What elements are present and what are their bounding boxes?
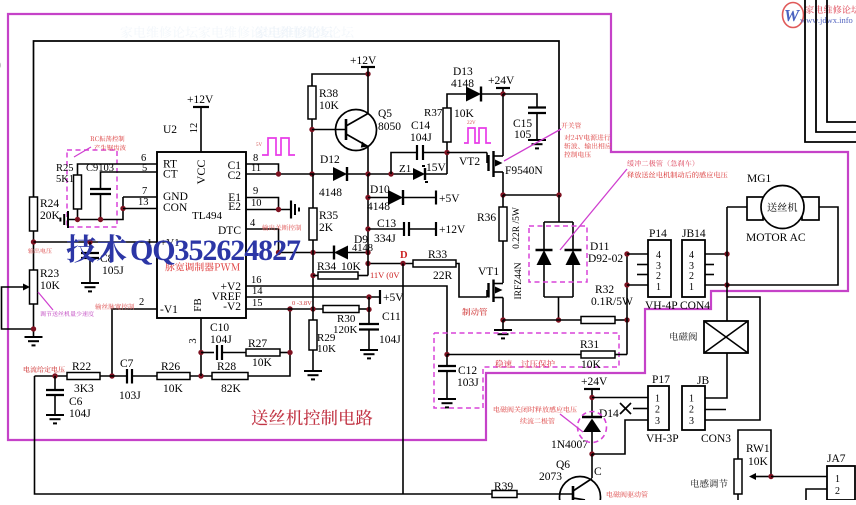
svg-text:+12V: +12V	[187, 94, 214, 106]
svg-text:JB14: JB14	[682, 228, 706, 240]
ground C15	[528, 140, 546, 148]
wire trio to right edge	[805, 0, 856, 142]
watermark QQ text	[67, 234, 301, 267]
wire JB14 pins	[705, 251, 730, 287]
annotation buffer diode	[560, 160, 728, 250]
svg-text:10K: 10K	[163, 383, 184, 395]
svg-text:D92-02: D92-02	[588, 253, 623, 265]
svg-text:4: 4	[656, 250, 661, 261]
wire pin16	[246, 275, 447, 355]
svg-text:R31: R31	[580, 339, 599, 351]
svg-text:E2: E2	[228, 201, 241, 213]
waveform pulse pin11	[256, 138, 295, 155]
svg-text:R39: R39	[494, 481, 513, 493]
svg-text:2: 2	[656, 271, 661, 282]
resistor R26	[157, 361, 212, 395]
svg-text:334J: 334J	[374, 233, 396, 245]
svg-text:R23: R23	[40, 268, 59, 280]
svg-text:CT: CT	[163, 169, 178, 181]
annotation current set voltage	[24, 366, 65, 373]
power +12V TL494 pin12	[187, 94, 214, 152]
resistor R38	[308, 86, 340, 177]
label U2	[163, 124, 177, 136]
svg-text:-V2: -V2	[223, 301, 241, 313]
resistor R31	[447, 339, 627, 371]
power +24V aux	[581, 376, 608, 417]
svg-text:1: 1	[689, 394, 694, 405]
svg-text:2: 2	[139, 297, 144, 308]
diode D14	[551, 408, 619, 457]
svg-text:C2: C2	[228, 170, 242, 182]
wire to solenoid	[705, 285, 760, 420]
power +12V Q5	[350, 55, 377, 74]
svg-text:R22: R22	[72, 361, 91, 373]
capacitor C13	[368, 218, 436, 245]
no-connect X P17 pin2	[620, 403, 648, 414]
svg-text:15V: 15V	[426, 162, 447, 174]
ground C12	[438, 399, 456, 407]
wire RW1 to JA7	[771, 476, 827, 478]
svg-text:13: 13	[138, 197, 149, 208]
svg-text:D10: D10	[370, 184, 390, 196]
label PWM red	[165, 262, 240, 271]
svg-text:Q6: Q6	[556, 459, 570, 471]
wire pin4 DTC	[246, 218, 281, 255]
svg-text:104J: 104J	[379, 334, 401, 346]
svg-text:0.22R /5W: 0.22R /5W	[512, 207, 522, 249]
svg-text:1: 1	[656, 282, 661, 293]
capacitor C8	[81, 242, 124, 283]
wire pin13	[123, 197, 157, 209]
svg-text:+24V: +24V	[581, 376, 608, 388]
diode D12	[319, 154, 371, 199]
wire VT2 source to rail	[503, 192, 562, 197]
svg-text:104J: 104J	[210, 334, 232, 346]
wire pin2 down	[112, 309, 157, 376]
annotation speed pointer	[38, 292, 94, 317]
svg-text:2: 2	[835, 486, 840, 497]
svg-text:0 -3.8V: 0 -3.8V	[292, 300, 312, 307]
svg-text:): )	[0, 57, 1, 71]
svg-text:11V (0V: 11V (0V	[370, 270, 400, 280]
svg-text:CON: CON	[163, 202, 188, 214]
svg-text:D11: D11	[590, 241, 610, 253]
svg-text:15: 15	[252, 298, 263, 309]
svg-text:R28: R28	[217, 361, 236, 373]
diode D10	[367, 184, 436, 213]
wire RC bottom bus	[68, 197, 126, 222]
svg-text:11: 11	[251, 163, 261, 174]
wire pin14 +5V	[246, 286, 404, 304]
svg-text:R27: R27	[248, 338, 267, 350]
svg-text:7: 7	[142, 186, 147, 197]
wire to D11	[558, 195, 560, 222]
wire R24 to R23	[31, 231, 36, 270]
watermark logo	[783, 3, 856, 28]
svg-text:82K: 82K	[221, 383, 242, 395]
svg-text:10K: 10K	[341, 261, 362, 273]
svg-text:D: D	[400, 250, 408, 261]
op-amp U2 TL494	[139, 152, 246, 318]
svg-text:-V1: -V1	[160, 304, 178, 316]
wire node A to TL494 pin1	[34, 239, 158, 244]
annotation output shutdown	[262, 224, 301, 230]
resistor R32	[581, 284, 633, 324]
svg-text:CON3: CON3	[701, 433, 731, 445]
resistor R35	[309, 174, 338, 253]
wire D14 to P17 pin3	[592, 420, 648, 454]
resistor R24	[30, 197, 61, 231]
connector JB	[682, 375, 731, 445]
svg-text:R34: R34	[317, 261, 336, 273]
svg-text:10: 10	[251, 198, 262, 209]
resistor R34	[310, 253, 368, 310]
annotation brake tube	[462, 308, 487, 316]
svg-text:120K: 120K	[333, 324, 358, 336]
transistor Q6	[539, 454, 602, 505]
wire node D	[365, 250, 413, 280]
capacitor C9	[86, 163, 114, 220]
connector JB14	[680, 228, 710, 312]
transistor VT1 IRFZ44N	[478, 262, 524, 322]
svg-text:C: C	[594, 466, 602, 478]
motor MG1 loop	[727, 207, 838, 285]
wire pin5 to C9	[101, 163, 158, 189]
capacitor C10	[201, 322, 246, 360]
transistor VT2 F9540N	[447, 94, 543, 198]
svg-text:C9103: C9103	[86, 163, 114, 174]
svg-text:D12: D12	[320, 154, 340, 166]
svg-text:+12V: +12V	[439, 224, 466, 236]
diode D11 pair	[536, 222, 624, 323]
wire pin9 pin10 ground	[246, 186, 290, 212]
transistor Q5	[312, 74, 401, 174]
svg-text:IRFZ44N: IRFZ44N	[514, 262, 524, 299]
svg-text:JB: JB	[697, 375, 709, 387]
svg-text:2073: 2073	[539, 471, 562, 483]
svg-text:5K1: 5K1	[56, 174, 74, 185]
wire to P17 pin1	[592, 397, 648, 399]
solenoid valve	[670, 321, 748, 353]
svg-text:D14: D14	[599, 408, 619, 420]
waveform pulse VT2 gate	[464, 121, 491, 143]
ground C11	[360, 350, 378, 358]
potentiometer R23	[2, 268, 61, 337]
svg-text:10K: 10K	[252, 357, 273, 369]
svg-text:14: 14	[252, 286, 263, 297]
wire pin7	[123, 186, 157, 197]
svg-text:8050: 8050	[378, 121, 401, 133]
potentiometer RW1	[734, 430, 774, 500]
resistor R25	[56, 163, 82, 209]
svg-text:F9540N: F9540N	[505, 165, 543, 177]
zener Z1	[368, 153, 447, 183]
wire +12V rail Q5	[312, 71, 371, 86]
svg-text:C11: C11	[382, 311, 401, 323]
svg-text:4: 4	[689, 250, 694, 261]
svg-text:VH-4P: VH-4P	[645, 300, 678, 312]
svg-text:1N4007: 1N4007	[551, 439, 588, 451]
svg-text:W: W	[784, 6, 801, 25]
power +5V D10	[436, 191, 460, 206]
svg-text:VT2: VT2	[459, 156, 480, 168]
svg-text:D13: D13	[453, 66, 473, 78]
svg-text:1: 1	[835, 474, 840, 485]
svg-text:P14: P14	[649, 228, 667, 240]
svg-text:P17: P17	[652, 374, 670, 386]
svg-text:105J: 105J	[102, 265, 124, 277]
resistor R33	[413, 249, 487, 297]
power +24V main	[488, 75, 515, 97]
diode D13	[451, 66, 503, 102]
svg-text:R26: R26	[161, 361, 180, 373]
connector P14	[645, 228, 678, 312]
svg-text:5V: 5V	[256, 143, 263, 148]
diode D9	[279, 234, 374, 260]
svg-text:R37: R37	[424, 107, 443, 119]
ground R23	[25, 337, 43, 345]
svg-text:R36: R36	[477, 212, 496, 224]
svg-text:2: 2	[689, 271, 694, 282]
svg-text:+5V: +5V	[439, 193, 460, 205]
wire top rail	[34, 41, 560, 197]
svg-text:RW1: RW1	[746, 443, 770, 455]
svg-text:R32: R32	[595, 284, 614, 296]
capacitor C15	[503, 94, 546, 141]
svg-text:22R: 22R	[433, 270, 453, 282]
svg-text:C13: C13	[377, 218, 396, 230]
svg-text:QQ352624827: QQ352624827	[130, 234, 301, 267]
wire R22 net	[35, 373, 115, 378]
wire brake rail	[503, 319, 581, 321]
resistor R22	[67, 361, 127, 395]
svg-text:R25: R25	[56, 163, 74, 174]
svg-text:+5V: +5V	[383, 292, 404, 304]
capacitor C11	[359, 297, 401, 350]
svg-text:JA7: JA7	[827, 453, 846, 465]
svg-text:Z1: Z1	[399, 163, 411, 175]
dashed box D11	[529, 226, 587, 282]
svg-text:3: 3	[188, 338, 199, 343]
annotation switch tube	[504, 122, 611, 161]
annotation solenoid driver	[607, 491, 648, 498]
svg-text:C6: C6	[69, 396, 83, 408]
svg-text:FB: FB	[192, 298, 204, 311]
annotation pulse width control	[95, 303, 134, 309]
ground C6	[46, 415, 64, 423]
svg-text:3: 3	[689, 416, 694, 427]
svg-text:10K: 10K	[748, 456, 769, 468]
svg-text:4148: 4148	[451, 78, 474, 90]
resistor R28	[212, 309, 290, 395]
svg-text:CON4: CON4	[680, 300, 710, 312]
dashed box RC oscillator	[67, 150, 117, 227]
svg-text:VH-3P: VH-3P	[646, 433, 679, 445]
svg-text:+24V: +24V	[488, 75, 515, 87]
capacitor C14	[391, 120, 447, 174]
title wire feeder control circuit	[252, 409, 373, 425]
resistor R30	[323, 306, 372, 337]
wire FB pin3	[188, 318, 204, 376]
annotation inductance adjust	[691, 479, 728, 488]
capacitor C12	[438, 352, 479, 399]
svg-text:R33: R33	[428, 249, 447, 261]
wire solenoid to JB	[705, 353, 727, 398]
svg-text:4148: 4148	[367, 201, 390, 213]
svg-text:R24: R24	[40, 198, 59, 210]
svg-text:TL494: TL494	[192, 210, 222, 222]
svg-text:C14: C14	[411, 120, 430, 132]
svg-text:C12: C12	[458, 365, 477, 377]
wire JA7 pin2	[806, 489, 827, 500]
resistor R29	[309, 309, 336, 371]
ground E1 E2	[291, 201, 299, 219]
svg-text:3K3: 3K3	[74, 383, 94, 395]
svg-text:10K: 10K	[319, 100, 340, 112]
connector JA7	[827, 453, 855, 500]
svg-text:103J: 103J	[119, 390, 141, 402]
svg-text:2: 2	[689, 405, 694, 416]
svg-text:C7: C7	[120, 358, 134, 370]
svg-text:10K: 10K	[454, 108, 475, 120]
label hidden red	[28, 248, 52, 254]
annotation RC text	[74, 136, 126, 157]
svg-text:VT1: VT1	[478, 266, 499, 278]
power +12V C13	[436, 222, 466, 236]
wire pin8 pin11	[246, 153, 333, 177]
svg-text:VCC: VCC	[194, 160, 208, 185]
svg-text:16: 16	[251, 275, 262, 286]
wire pin15	[246, 298, 323, 312]
motor MG1	[746, 173, 819, 244]
svg-text:4148: 4148	[319, 187, 342, 199]
svg-text:MG1: MG1	[747, 173, 772, 185]
svg-text:10K: 10K	[581, 359, 602, 371]
wire node D vertical	[402, 264, 404, 495]
ground C8	[81, 283, 99, 291]
svg-text:MOTOR AC: MOTOR AC	[746, 232, 806, 244]
resistor R39	[492, 481, 573, 498]
svg-text:2K: 2K	[319, 222, 334, 234]
connector P17	[646, 374, 679, 445]
resistor R27	[246, 306, 293, 369]
svg-text:20K: 20K	[40, 210, 61, 222]
svg-text:U2: U2	[163, 124, 177, 136]
svg-text:1: 1	[655, 394, 660, 405]
capacitor C7	[119, 358, 157, 402]
capacitor C6	[46, 376, 91, 420]
svg-text:10K: 10K	[317, 343, 336, 355]
svg-text:2: 2	[655, 405, 660, 416]
annotation solenoid release	[494, 406, 583, 432]
svg-text:Q5: Q5	[378, 108, 392, 120]
wire pin6 to R25	[78, 153, 158, 175]
svg-text:3: 3	[655, 416, 660, 427]
svg-text:12: 12	[189, 123, 200, 134]
ground VT1	[494, 320, 512, 338]
svg-text:C10: C10	[210, 322, 229, 334]
ground R29	[304, 371, 322, 379]
wire bottom rail	[35, 376, 493, 494]
svg-text:104J: 104J	[69, 408, 91, 420]
ground RC bus	[60, 211, 68, 228]
svg-text:103J: 103J	[457, 377, 479, 389]
svg-text:R35: R35	[319, 210, 338, 222]
svg-text:+12V: +12V	[350, 55, 377, 67]
svg-text:5: 5	[142, 163, 147, 174]
wire R32 R31 to P14	[624, 251, 629, 354]
resistor R37	[424, 94, 475, 155]
wire emitter rail	[365, 174, 370, 276]
partial label left edge	[0, 57, 1, 71]
watermark ghost band	[121, 26, 354, 38]
svg-text:10K: 10K	[40, 280, 61, 292]
svg-text:1: 1	[689, 282, 694, 293]
dashed box stabilization	[434, 333, 619, 408]
wire P14 pins	[627, 254, 648, 285]
svg-text:22V: 22V	[467, 121, 476, 126]
svg-text:4: 4	[250, 218, 256, 229]
annotation stabilize	[495, 360, 555, 368]
resistor R36	[477, 195, 522, 283]
svg-text:9: 9	[253, 186, 258, 197]
svg-text:104J: 104J	[410, 132, 432, 144]
svg-text:R38: R38	[319, 88, 338, 100]
